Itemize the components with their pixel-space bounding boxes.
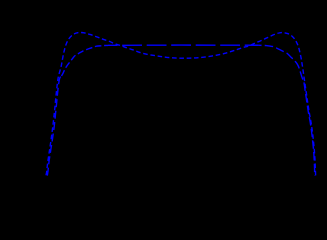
curve B: long-dashed blue profile, central plateau (108, 44, 258, 46)
curve A: short-dashed blue profile with overshoot peaks (46, 33, 316, 176)
curve B: long-dashed blue profile, left steep rise (47, 76, 61, 176)
curve B: long-dashed blue profile, right bend and fall (258, 45, 315, 176)
curve B: long-dashed blue profile, left bend (62, 45, 109, 76)
